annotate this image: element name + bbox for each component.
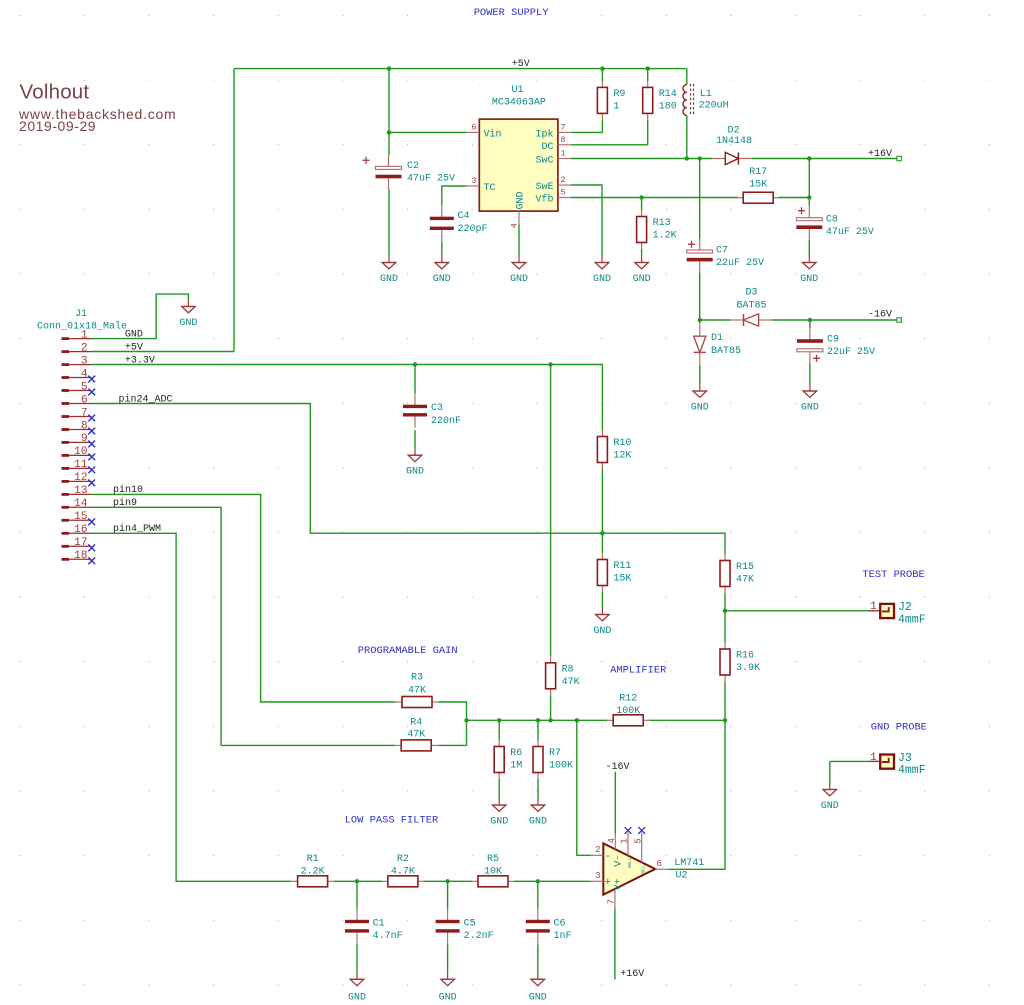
svg-text:1.2K: 1.2K bbox=[653, 231, 677, 242]
svg-text:pin9: pin9 bbox=[113, 497, 137, 509]
svg-text:TC: TC bbox=[484, 183, 496, 194]
no-connect J1 pin 18 bbox=[88, 557, 95, 564]
svg-text:C2: C2 bbox=[407, 161, 419, 172]
U2 pin 3 non-inverting input bbox=[591, 871, 612, 889]
svg-text:SwE: SwE bbox=[535, 182, 553, 193]
resistor R16 bbox=[720, 643, 760, 682]
svg-text:R7: R7 bbox=[549, 748, 561, 759]
wire bbox=[550, 695, 552, 720]
resistor R17 bbox=[737, 167, 780, 203]
wire bbox=[467, 719, 608, 721]
svg-text:R2: R2 bbox=[397, 854, 409, 865]
svg-text:1: 1 bbox=[870, 752, 877, 764]
svg-text:NULL: NULL bbox=[628, 857, 633, 868]
connector J2 4mm test probe bbox=[869, 601, 926, 626]
svg-text:4mmF: 4mmF bbox=[898, 764, 926, 777]
junction bbox=[639, 195, 643, 199]
wire bbox=[356, 881, 358, 908]
wire bbox=[424, 880, 472, 882]
svg-text:GND: GND bbox=[529, 817, 547, 828]
junction bbox=[723, 609, 727, 613]
resistor R7 bbox=[533, 740, 573, 779]
svg-text:1N4148: 1N4148 bbox=[716, 136, 752, 147]
svg-text:8: 8 bbox=[81, 420, 88, 432]
no-connect U2 pin 1 bbox=[625, 827, 632, 834]
svg-text:R12: R12 bbox=[619, 693, 637, 704]
wire bbox=[92, 365, 603, 431]
wire bbox=[388, 69, 390, 155]
junction bbox=[548, 718, 552, 722]
ground bbox=[439, 973, 457, 1004]
junction bbox=[387, 130, 391, 134]
wire bbox=[686, 115, 688, 158]
svg-text:47uF 25V: 47uF 25V bbox=[407, 174, 455, 185]
junction bbox=[497, 718, 501, 722]
svg-text:MC34063AP: MC34063AP bbox=[492, 98, 546, 109]
svg-text:4: 4 bbox=[607, 838, 617, 843]
svg-text:GND PROBE: GND PROBE bbox=[871, 722, 927, 734]
capacitor C4 bbox=[430, 205, 488, 241]
ground bbox=[380, 256, 398, 285]
svg-text:15K: 15K bbox=[613, 574, 631, 585]
svg-text:C1: C1 bbox=[373, 918, 385, 929]
junction bbox=[807, 156, 811, 160]
svg-text:GND: GND bbox=[801, 403, 819, 414]
U1 pin 8 DC bbox=[541, 135, 570, 153]
svg-text:DC: DC bbox=[541, 142, 553, 153]
svg-text:R1: R1 bbox=[307, 854, 319, 865]
svg-text:GND: GND bbox=[433, 274, 451, 285]
svg-text:220uH: 220uH bbox=[699, 101, 729, 112]
ground bbox=[801, 385, 819, 414]
J1 pin 5 bbox=[62, 381, 92, 393]
J1 pin 18 bbox=[62, 550, 92, 562]
svg-text:C5: C5 bbox=[464, 918, 476, 929]
wire bbox=[809, 363, 811, 384]
svg-text:D3: D3 bbox=[745, 287, 757, 298]
junction bbox=[807, 195, 811, 199]
resistor R14 bbox=[643, 81, 677, 120]
wire bbox=[700, 319, 731, 321]
capacitor C7 bbox=[687, 239, 764, 273]
capacitor C9 bbox=[797, 328, 875, 363]
wire bbox=[92, 507, 395, 745]
svg-text:GND: GND bbox=[800, 274, 818, 285]
svg-text:6: 6 bbox=[81, 394, 88, 406]
no-connect J1 pin 10 bbox=[88, 454, 95, 461]
no-connect J1 pin 5 bbox=[88, 389, 95, 396]
wire bbox=[92, 404, 726, 555]
wire bbox=[752, 158, 897, 160]
svg-text:47K: 47K bbox=[408, 686, 426, 697]
wire bbox=[724, 682, 726, 721]
wire bbox=[601, 592, 603, 608]
wire bbox=[641, 249, 643, 256]
svg-text:5: 5 bbox=[81, 381, 88, 393]
svg-text:8: 8 bbox=[561, 135, 566, 145]
wire bbox=[234, 68, 687, 70]
connector J1 Conn_01x18_Male bbox=[37, 309, 127, 333]
connector J3 4mm ground probe bbox=[869, 752, 926, 777]
wire bbox=[518, 224, 520, 256]
junction bbox=[536, 879, 540, 883]
wire end +16V bbox=[897, 156, 901, 160]
diode D3 BAT85 bbox=[731, 287, 772, 326]
resistor R10 bbox=[597, 430, 631, 469]
svg-text:R10: R10 bbox=[613, 438, 631, 449]
wire bbox=[809, 320, 811, 328]
svg-text:2.2nF: 2.2nF bbox=[464, 931, 494, 942]
ground bbox=[800, 256, 818, 285]
svg-text:pin24_ADC: pin24_ADC bbox=[119, 393, 173, 405]
svg-text:-16V: -16V bbox=[868, 310, 892, 321]
svg-text:9: 9 bbox=[81, 433, 88, 445]
svg-text:GND: GND bbox=[439, 992, 457, 1003]
J1 pin 1 bbox=[62, 329, 92, 341]
J1 pin 2 bbox=[62, 342, 92, 354]
U1 pin 4 GND bbox=[510, 191, 527, 228]
svg-text:R5: R5 bbox=[487, 854, 499, 865]
svg-text:47uF 25V: 47uF 25V bbox=[826, 227, 874, 238]
resistor R12 bbox=[607, 693, 650, 726]
svg-text:5: 5 bbox=[633, 838, 643, 843]
svg-text:220pF: 220pF bbox=[458, 224, 488, 235]
ground bbox=[691, 385, 709, 414]
wire bbox=[92, 351, 235, 353]
U2 pin 1 NULL bbox=[620, 833, 633, 869]
U1 pin 6 Vin bbox=[467, 123, 502, 141]
wire bbox=[601, 469, 603, 533]
J1 pin 7 bbox=[62, 407, 92, 419]
J1 pin 4 bbox=[62, 368, 92, 380]
U2 pin 6 output bbox=[655, 859, 668, 869]
svg-text:7: 7 bbox=[81, 407, 88, 419]
wire bbox=[515, 880, 591, 882]
wire bbox=[571, 120, 602, 133]
capacitor C5 bbox=[436, 909, 494, 944]
resistor R9 bbox=[597, 81, 625, 120]
wire bbox=[571, 120, 648, 145]
wire bbox=[571, 185, 602, 256]
svg-text:pin10: pin10 bbox=[113, 484, 143, 496]
svg-text:220nF: 220nF bbox=[431, 416, 461, 427]
no-connect J1 pin 11 bbox=[88, 467, 95, 474]
wire bbox=[334, 880, 382, 882]
svg-text:J2: J2 bbox=[898, 601, 912, 614]
wire end -16V bbox=[897, 318, 901, 322]
junction bbox=[723, 718, 727, 722]
svg-text:18: 18 bbox=[74, 550, 88, 562]
op-amp U2 LM741 bbox=[603, 843, 704, 894]
svg-text:R14: R14 bbox=[659, 89, 677, 100]
svg-text:GND: GND bbox=[179, 318, 197, 329]
svg-text:1nF: 1nF bbox=[554, 931, 572, 942]
wire bbox=[447, 881, 449, 908]
svg-text:+3.3V: +3.3V bbox=[125, 355, 155, 366]
svg-text:R3: R3 bbox=[411, 673, 423, 684]
ground bbox=[529, 973, 547, 1004]
svg-text:4: 4 bbox=[81, 368, 88, 380]
svg-text:1: 1 bbox=[81, 329, 88, 341]
wire bbox=[438, 702, 467, 745]
svg-text:GND: GND bbox=[490, 817, 508, 828]
svg-text:16: 16 bbox=[74, 524, 88, 536]
J1 pin 13 bbox=[62, 485, 92, 497]
svg-text:22uF 25V: 22uF 25V bbox=[716, 258, 764, 269]
J1 pin 15 bbox=[62, 511, 92, 523]
svg-text:C8: C8 bbox=[826, 215, 838, 226]
svg-text:4.7K: 4.7K bbox=[391, 866, 415, 877]
resistor R2 bbox=[381, 854, 424, 887]
wire bbox=[537, 720, 539, 740]
svg-text:GND: GND bbox=[821, 801, 839, 812]
svg-text:+5V: +5V bbox=[512, 59, 530, 70]
svg-text:6: 6 bbox=[657, 859, 662, 869]
svg-text:AMPLIFIER: AMPLIFIER bbox=[610, 664, 666, 676]
U1 pin 7 Ipk bbox=[535, 123, 570, 141]
svg-text:C7: C7 bbox=[716, 245, 728, 256]
ground bbox=[593, 608, 611, 637]
junction bbox=[355, 879, 359, 883]
wire bbox=[92, 533, 292, 881]
wire bbox=[550, 365, 552, 657]
svg-text:Vfb: Vfb bbox=[535, 194, 553, 206]
svg-text:GND: GND bbox=[593, 626, 611, 637]
ground bbox=[529, 799, 547, 828]
resistor R4 bbox=[395, 718, 438, 751]
J1 pin 6 bbox=[62, 394, 92, 406]
junction bbox=[808, 318, 812, 322]
junction bbox=[387, 66, 391, 70]
U2 pin 5 NULL bbox=[633, 833, 646, 875]
junction bbox=[575, 718, 579, 722]
svg-text:R13: R13 bbox=[653, 218, 671, 229]
svg-text:Ipk: Ipk bbox=[535, 129, 553, 141]
svg-text:4mmF: 4mmF bbox=[898, 614, 926, 627]
no-connect J1 pin 9 bbox=[88, 441, 95, 448]
resistor R5 bbox=[472, 854, 515, 887]
wire bbox=[641, 198, 643, 211]
svg-text:LM741: LM741 bbox=[674, 858, 704, 869]
resistor R15 bbox=[720, 554, 754, 593]
resistor R13 bbox=[637, 210, 677, 249]
svg-text:J3: J3 bbox=[898, 752, 912, 765]
svg-text:2: 2 bbox=[81, 342, 88, 354]
ground bbox=[490, 799, 508, 828]
inductor L1 220uH bbox=[683, 84, 729, 116]
junction bbox=[600, 66, 604, 70]
U1 pin 3 TC bbox=[467, 176, 496, 194]
svg-text:C4: C4 bbox=[458, 211, 470, 222]
U1 pin 2 SwE bbox=[535, 175, 570, 193]
J1 pin 8 bbox=[62, 420, 92, 432]
wire bbox=[537, 944, 539, 973]
J1 pin 10 bbox=[62, 446, 92, 458]
svg-text:GND: GND bbox=[633, 274, 651, 285]
svg-text:pin4_PWM: pin4_PWM bbox=[113, 523, 161, 535]
wire bbox=[233, 69, 235, 352]
resistor R3 bbox=[396, 673, 439, 708]
svg-text:Volhout: Volhout bbox=[20, 80, 90, 103]
svg-text:12K: 12K bbox=[613, 451, 631, 462]
capacitor C6 bbox=[526, 909, 572, 944]
svg-text:1: 1 bbox=[561, 149, 566, 159]
svg-text:J1: J1 bbox=[75, 309, 87, 320]
svg-text:4: 4 bbox=[510, 223, 520, 228]
svg-text:100K: 100K bbox=[616, 706, 640, 717]
svg-text:NULL: NULL bbox=[641, 864, 646, 875]
svg-text:3: 3 bbox=[81, 355, 88, 367]
ground bbox=[179, 300, 197, 329]
svg-text:4.7nF: 4.7nF bbox=[373, 931, 403, 942]
ground bbox=[593, 256, 611, 285]
no-connect J1 pin 7 bbox=[88, 415, 95, 422]
J1 pin 11 bbox=[62, 459, 92, 471]
svg-text:13: 13 bbox=[74, 485, 88, 497]
no-connect J1 pin 4 bbox=[88, 376, 95, 383]
wire bbox=[724, 593, 726, 643]
wire bbox=[699, 365, 701, 384]
svg-text:C9: C9 bbox=[827, 335, 839, 346]
svg-text:C6: C6 bbox=[554, 918, 566, 929]
svg-text:-16V: -16V bbox=[606, 762, 630, 773]
svg-text:12: 12 bbox=[74, 472, 88, 484]
wire bbox=[647, 69, 649, 81]
svg-text:2019-09-29: 2019-09-29 bbox=[19, 118, 96, 134]
resistor R6 bbox=[494, 740, 522, 779]
wire bbox=[571, 197, 738, 199]
svg-text:1: 1 bbox=[870, 601, 877, 613]
diode D1 BAT85 bbox=[694, 323, 741, 365]
svg-text:BAT85: BAT85 bbox=[736, 300, 766, 311]
U2 pin 7 V+ power bbox=[606, 878, 624, 908]
no-connect U2 pin 5 bbox=[638, 827, 645, 834]
svg-text:+16V: +16V bbox=[620, 969, 644, 980]
svg-text:7: 7 bbox=[606, 899, 616, 904]
svg-text:R9: R9 bbox=[613, 89, 625, 100]
ground bbox=[633, 256, 651, 285]
J1 pin 9 bbox=[62, 433, 92, 445]
svg-text:R16: R16 bbox=[736, 651, 754, 662]
svg-text:10: 10 bbox=[74, 446, 88, 458]
ground bbox=[348, 973, 366, 1004]
svg-text:GND: GND bbox=[348, 992, 366, 1003]
svg-text:1M: 1M bbox=[510, 761, 522, 772]
svg-text:GND: GND bbox=[380, 274, 398, 285]
resistor R8 bbox=[546, 656, 580, 695]
svg-text:15K: 15K bbox=[749, 179, 767, 190]
junction bbox=[536, 718, 540, 722]
svg-text:14: 14 bbox=[74, 498, 88, 510]
svg-text:2.2K: 2.2K bbox=[301, 866, 325, 877]
J1 pin 3 bbox=[62, 355, 92, 367]
J1 pin 16 bbox=[62, 524, 92, 536]
junction bbox=[413, 362, 417, 366]
no-connect J1 pin 8 bbox=[88, 428, 95, 435]
wire bbox=[498, 779, 500, 799]
svg-text:47K: 47K bbox=[736, 575, 754, 586]
svg-text:L1: L1 bbox=[700, 89, 712, 100]
svg-text:1: 1 bbox=[613, 101, 619, 112]
svg-text:GND: GND bbox=[515, 191, 526, 209]
capacitor C3 bbox=[403, 393, 461, 427]
svg-text:11: 11 bbox=[74, 459, 88, 471]
svg-text:U2: U2 bbox=[676, 871, 688, 882]
svg-text:7: 7 bbox=[561, 123, 566, 133]
capacitor C2 bbox=[363, 155, 456, 190]
svg-text:GND: GND bbox=[125, 329, 143, 340]
resistor R11 bbox=[597, 553, 631, 592]
svg-text:47K: 47K bbox=[562, 677, 580, 688]
J1 pin 14 bbox=[62, 498, 92, 510]
svg-text:V-: V- bbox=[614, 855, 625, 867]
svg-text:GND: GND bbox=[529, 992, 547, 1003]
wire bbox=[699, 159, 701, 239]
svg-text:C3: C3 bbox=[431, 403, 443, 414]
wire bbox=[498, 720, 500, 740]
wire bbox=[447, 944, 449, 973]
capacitor C1 bbox=[345, 909, 403, 944]
svg-text:GND: GND bbox=[510, 274, 528, 285]
svg-text:R8: R8 bbox=[562, 664, 574, 675]
wire bbox=[577, 720, 591, 855]
svg-text:D1: D1 bbox=[711, 333, 723, 344]
U1 pin 1 SwC bbox=[535, 149, 570, 167]
wire bbox=[389, 131, 467, 133]
ground bbox=[433, 256, 451, 285]
wire bbox=[649, 719, 725, 721]
wire bbox=[699, 320, 701, 323]
wire bbox=[92, 494, 396, 702]
wire bbox=[441, 241, 443, 256]
svg-text:15: 15 bbox=[74, 511, 88, 523]
wire bbox=[772, 319, 897, 321]
no-connect J1 pin 15 bbox=[88, 518, 95, 525]
ground bbox=[406, 449, 424, 478]
wire bbox=[669, 720, 726, 869]
svg-text:6: 6 bbox=[471, 123, 476, 133]
wire bbox=[778, 197, 809, 199]
diode D2 1N4148 bbox=[712, 125, 752, 164]
svg-text:R4: R4 bbox=[410, 718, 422, 729]
svg-text:+: + bbox=[605, 877, 612, 889]
svg-text:GND: GND bbox=[691, 403, 709, 414]
no-connect J1 pin 12 bbox=[88, 480, 95, 487]
svg-text:SwC: SwC bbox=[535, 156, 553, 167]
capacitor C8 bbox=[796, 206, 874, 240]
wire bbox=[92, 294, 189, 339]
svg-text:R6: R6 bbox=[510, 748, 522, 759]
svg-text:22uF 25V: 22uF 25V bbox=[827, 347, 875, 358]
J1 pin 17 bbox=[62, 537, 92, 549]
svg-text:100K: 100K bbox=[549, 761, 573, 772]
svg-text:2: 2 bbox=[561, 175, 566, 185]
junction bbox=[445, 879, 449, 883]
svg-text:D2: D2 bbox=[727, 125, 739, 136]
wire bbox=[571, 158, 712, 160]
svg-text:+5V: +5V bbox=[125, 342, 143, 353]
svg-text:POWER SUPPLY: POWER SUPPLY bbox=[474, 7, 550, 19]
U2 pin 4 V- power bbox=[607, 834, 625, 867]
IC U1 MC34063AP bbox=[479, 85, 558, 211]
junction bbox=[685, 156, 689, 160]
wire bbox=[808, 240, 810, 256]
wire bbox=[614, 909, 616, 980]
wire bbox=[414, 430, 416, 449]
no-connect J1 pin 17 bbox=[88, 544, 95, 551]
svg-text:3: 3 bbox=[471, 176, 476, 186]
junction bbox=[646, 66, 650, 70]
